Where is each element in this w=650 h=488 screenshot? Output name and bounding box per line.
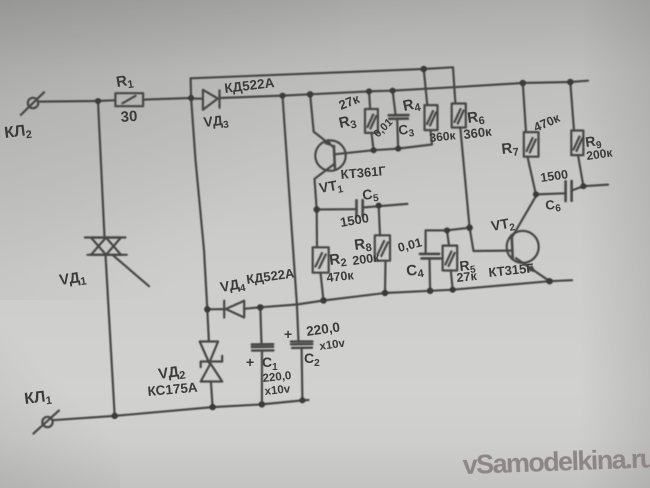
wire R7 bottom lead [528,157,536,195]
wire C3 top lead [393,91,396,115]
wire bottom mid rail [260,280,572,307]
triac VD1 [85,238,149,287]
wire R1 to node J1 [143,98,191,100]
svg-text:R2: R2 [328,250,347,271]
wire VD2 bottom lead [211,382,213,408]
terminal KL2 [21,92,44,115]
svg-text:х10v: х10v [319,337,347,353]
resistor R8 [375,235,390,260]
resistor R4 [425,105,438,130]
wire C2 top lead [297,305,299,342]
zener VD2 [200,342,223,382]
wire C1 bottom lead [261,351,263,405]
diode VD4 [207,301,260,318]
wire R5 top lead [447,230,449,245]
svg-text:С6: С6 [544,196,562,216]
svg-text:С1: С1 [262,354,278,373]
svg-text:27к: 27к [337,91,363,113]
svg-text:27к: 27к [456,269,478,285]
wire R9 bottom lead [578,155,583,186]
wire R3 bottom lead [372,133,374,150]
wire C4 top elbow [426,228,470,254]
svg-text:360к: 360к [463,124,493,142]
capacitor C2 [291,341,312,348]
svg-text:С2: С2 [304,350,320,369]
capacitor C3 [389,115,409,119]
wire J1 up to top rail [190,78,193,98]
capacitor C5 with wires [317,200,408,217]
svg-text:КТ315Г: КТ315Г [488,260,535,280]
wire R3 top lead [369,91,370,109]
svg-text:КС175А: КС175А [147,380,198,399]
capacitor C6 with wires [536,181,608,201]
capacitor C1 [252,344,274,350]
wire C1 top lead [260,307,261,344]
svg-text:+: + [284,326,292,342]
wire R8 bottom lead [384,261,387,293]
svg-text:+: + [246,354,254,370]
terminal KL1 [33,411,59,434]
resistor R1 [115,93,143,106]
svg-text:х10v: х10v [264,383,291,398]
svg-text:R1: R1 [115,72,135,93]
resistor R2 [313,247,329,272]
resistor R7 [524,132,539,157]
resistor R6 [452,104,466,128]
resistor R9 [571,131,583,156]
svg-text:vSamodelkina.ru: vSamodelkina.ru [462,443,650,480]
svg-text:КЛ2: КЛ2 [3,122,32,144]
transistor VT2 [470,194,550,281]
diode VD3 [191,90,282,110]
svg-text:470к: 470к [326,268,355,285]
svg-text:200к: 200к [351,250,381,268]
svg-text:КД522А: КД522А [224,75,276,96]
wire R6 top lead from top rail [453,67,455,103]
wire R6 bottom long lead [460,128,469,228]
svg-text:КЛ1: КЛ1 [23,388,52,410]
wire VT1 base line to R4 [335,130,433,154]
svg-text:R4: R4 [401,95,422,117]
capacitor C4 [420,254,441,259]
wire R7 top lead [523,83,526,132]
svg-text:220,0: 220,0 [305,319,341,339]
wire left vertical from KL2 junction [98,101,105,237]
svg-text:R7: R7 [501,139,520,160]
wire KL2 to left junction [38,100,98,103]
wire junction to R1 [98,99,115,102]
wire VD1 down to KL1 rail [106,255,115,416]
svg-text:С5: С5 [361,185,380,206]
wire C2 bottom lead [301,348,304,401]
wire R8 top lead [379,206,380,236]
svg-text:30: 30 [120,108,138,126]
wire top rail [191,67,453,78]
svg-text:VД4: VД4 [219,275,247,298]
wire KL1 rail [53,400,309,420]
svg-text:470к: 470к [532,111,563,135]
svg-text:0,01: 0,01 [396,235,423,254]
svg-text:1500: 1500 [339,210,370,230]
wire VD4 node down to VD2 [207,309,209,341]
wire J2 vertical down [283,96,297,305]
wire R2 top lead [316,210,318,248]
svg-text:VД3: VД3 [203,111,230,133]
wire J1 vertical down to VD4 node [191,98,207,309]
svg-text:VД1: VД1 [58,268,87,291]
wire C4 bottom lead [428,258,431,290]
svg-text:200к: 200к [585,145,614,163]
wire R4 top lead from top rail [424,69,428,105]
svg-text:КД522А: КД522А [245,265,295,287]
resistor R5 [443,246,458,271]
wire R5 bottom lead [451,271,453,290]
svg-text:С3: С3 [397,121,415,141]
wire R9 top lead [570,82,574,131]
svg-text:С4: С4 [405,261,425,282]
transistor VT1 [310,94,346,209]
svg-text:R3: R3 [337,112,358,134]
resistor R3 [365,109,378,133]
wire R2 bottom lead [321,273,324,301]
wire C3 bottom lead [397,120,398,149]
svg-text:360к: 360к [429,128,457,145]
svg-text:КТ361Г: КТ361Г [340,163,387,182]
wire lower rail [283,81,589,96]
